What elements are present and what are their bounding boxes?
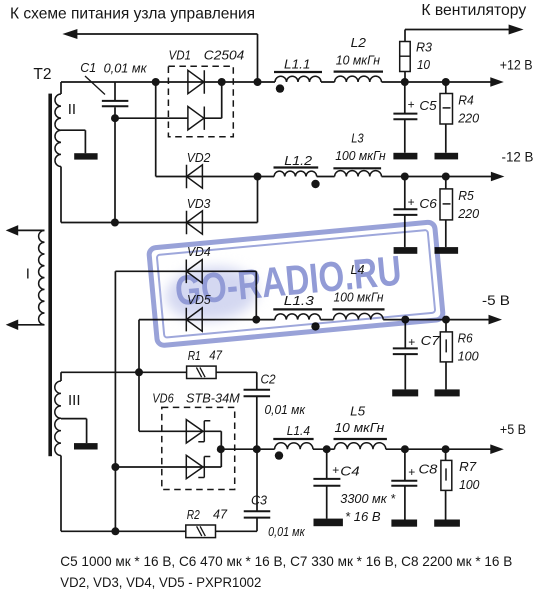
svg-text:100 мкГн: 100 мкГн	[334, 290, 384, 305]
svg-text:STB-34M: STB-34M	[186, 391, 240, 406]
svg-text:C7: C7	[421, 333, 441, 348]
svg-text:-5 В: -5 В	[482, 293, 510, 308]
svg-text:R6: R6	[458, 330, 474, 345]
svg-text:0,01 мк: 0,01 мк	[265, 402, 306, 417]
svg-text:+: +	[408, 195, 415, 209]
svg-text:R4: R4	[458, 92, 474, 107]
svg-text:VD2, VD3, VD4, VD5 - PXPR1002: VD2, VD3, VD4, VD5 - PXPR1002	[60, 574, 261, 590]
svg-text:0,01 мк: 0,01 мк	[268, 524, 305, 539]
svg-text:L2: L2	[351, 35, 367, 50]
svg-text:C2504: C2504	[204, 48, 244, 63]
svg-text:47: 47	[209, 348, 222, 363]
svg-text:VD1: VD1	[169, 48, 192, 63]
svg-text:К схеме питания узла управлени: К схеме питания узла управления	[10, 6, 255, 23]
svg-text:+: +	[408, 97, 415, 111]
svg-text:100: 100	[459, 477, 480, 492]
svg-text:10: 10	[417, 57, 431, 72]
svg-text:L1.4: L1.4	[287, 423, 310, 438]
svg-text:C1: C1	[80, 60, 96, 75]
svg-text:VD5: VD5	[187, 292, 211, 307]
svg-text:+: +	[408, 335, 415, 349]
svg-text:+5 В: +5 В	[500, 422, 526, 437]
svg-text:К вентилятору: К вентилятору	[421, 2, 526, 19]
svg-text:III: III	[68, 392, 81, 409]
svg-text:C5: C5	[419, 98, 437, 113]
svg-text:100 мкГн: 100 мкГн	[335, 148, 385, 163]
svg-text:Т2: Т2	[33, 66, 51, 83]
svg-text:L1.1: L1.1	[284, 57, 311, 72]
svg-text:I: I	[26, 266, 30, 283]
svg-text:L5: L5	[350, 404, 366, 419]
svg-text:+12 В: +12 В	[500, 57, 533, 72]
svg-text:VD3: VD3	[187, 196, 211, 211]
svg-text:+: +	[408, 465, 415, 479]
svg-text:R1: R1	[188, 348, 201, 363]
svg-text:VD6: VD6	[152, 391, 174, 406]
svg-text:-12 В: -12 В	[502, 149, 534, 164]
svg-text:* 16 В: * 16 В	[345, 509, 381, 524]
svg-text:L1.3: L1.3	[284, 293, 315, 308]
svg-text:C3: C3	[251, 493, 268, 508]
svg-text:R2: R2	[187, 507, 201, 522]
svg-text:VD4: VD4	[187, 244, 211, 259]
svg-text:C8: C8	[419, 462, 439, 477]
svg-text:R7: R7	[459, 459, 477, 474]
svg-text:L3: L3	[351, 130, 364, 145]
svg-text:C4: C4	[340, 464, 359, 479]
svg-text:R5: R5	[458, 188, 474, 203]
svg-text:C2: C2	[261, 372, 277, 387]
svg-text:3300 мк *: 3300 мк *	[340, 491, 396, 506]
svg-text:+: +	[332, 463, 339, 477]
svg-text:L1.2: L1.2	[284, 153, 313, 168]
svg-text:C5 1000 мк * 16 В, C6 470 мк: C5 1000 мк * 16 В, C6 470 мк * 16 В, C7 …	[60, 553, 512, 569]
svg-text:10 мкГн: 10 мкГн	[336, 53, 380, 68]
svg-text:R3: R3	[416, 40, 433, 55]
svg-text:VD2: VD2	[187, 150, 211, 165]
svg-text:0,01 мк: 0,01 мк	[104, 60, 148, 75]
svg-text:220: 220	[457, 206, 480, 221]
svg-text:II: II	[68, 101, 76, 118]
svg-text:10 мкГн: 10 мкГн	[335, 420, 385, 435]
svg-text:C6: C6	[419, 196, 437, 211]
svg-text:47: 47	[213, 507, 228, 522]
svg-text:100: 100	[458, 349, 480, 364]
svg-text:220: 220	[457, 111, 480, 126]
svg-text:L4: L4	[351, 262, 365, 277]
